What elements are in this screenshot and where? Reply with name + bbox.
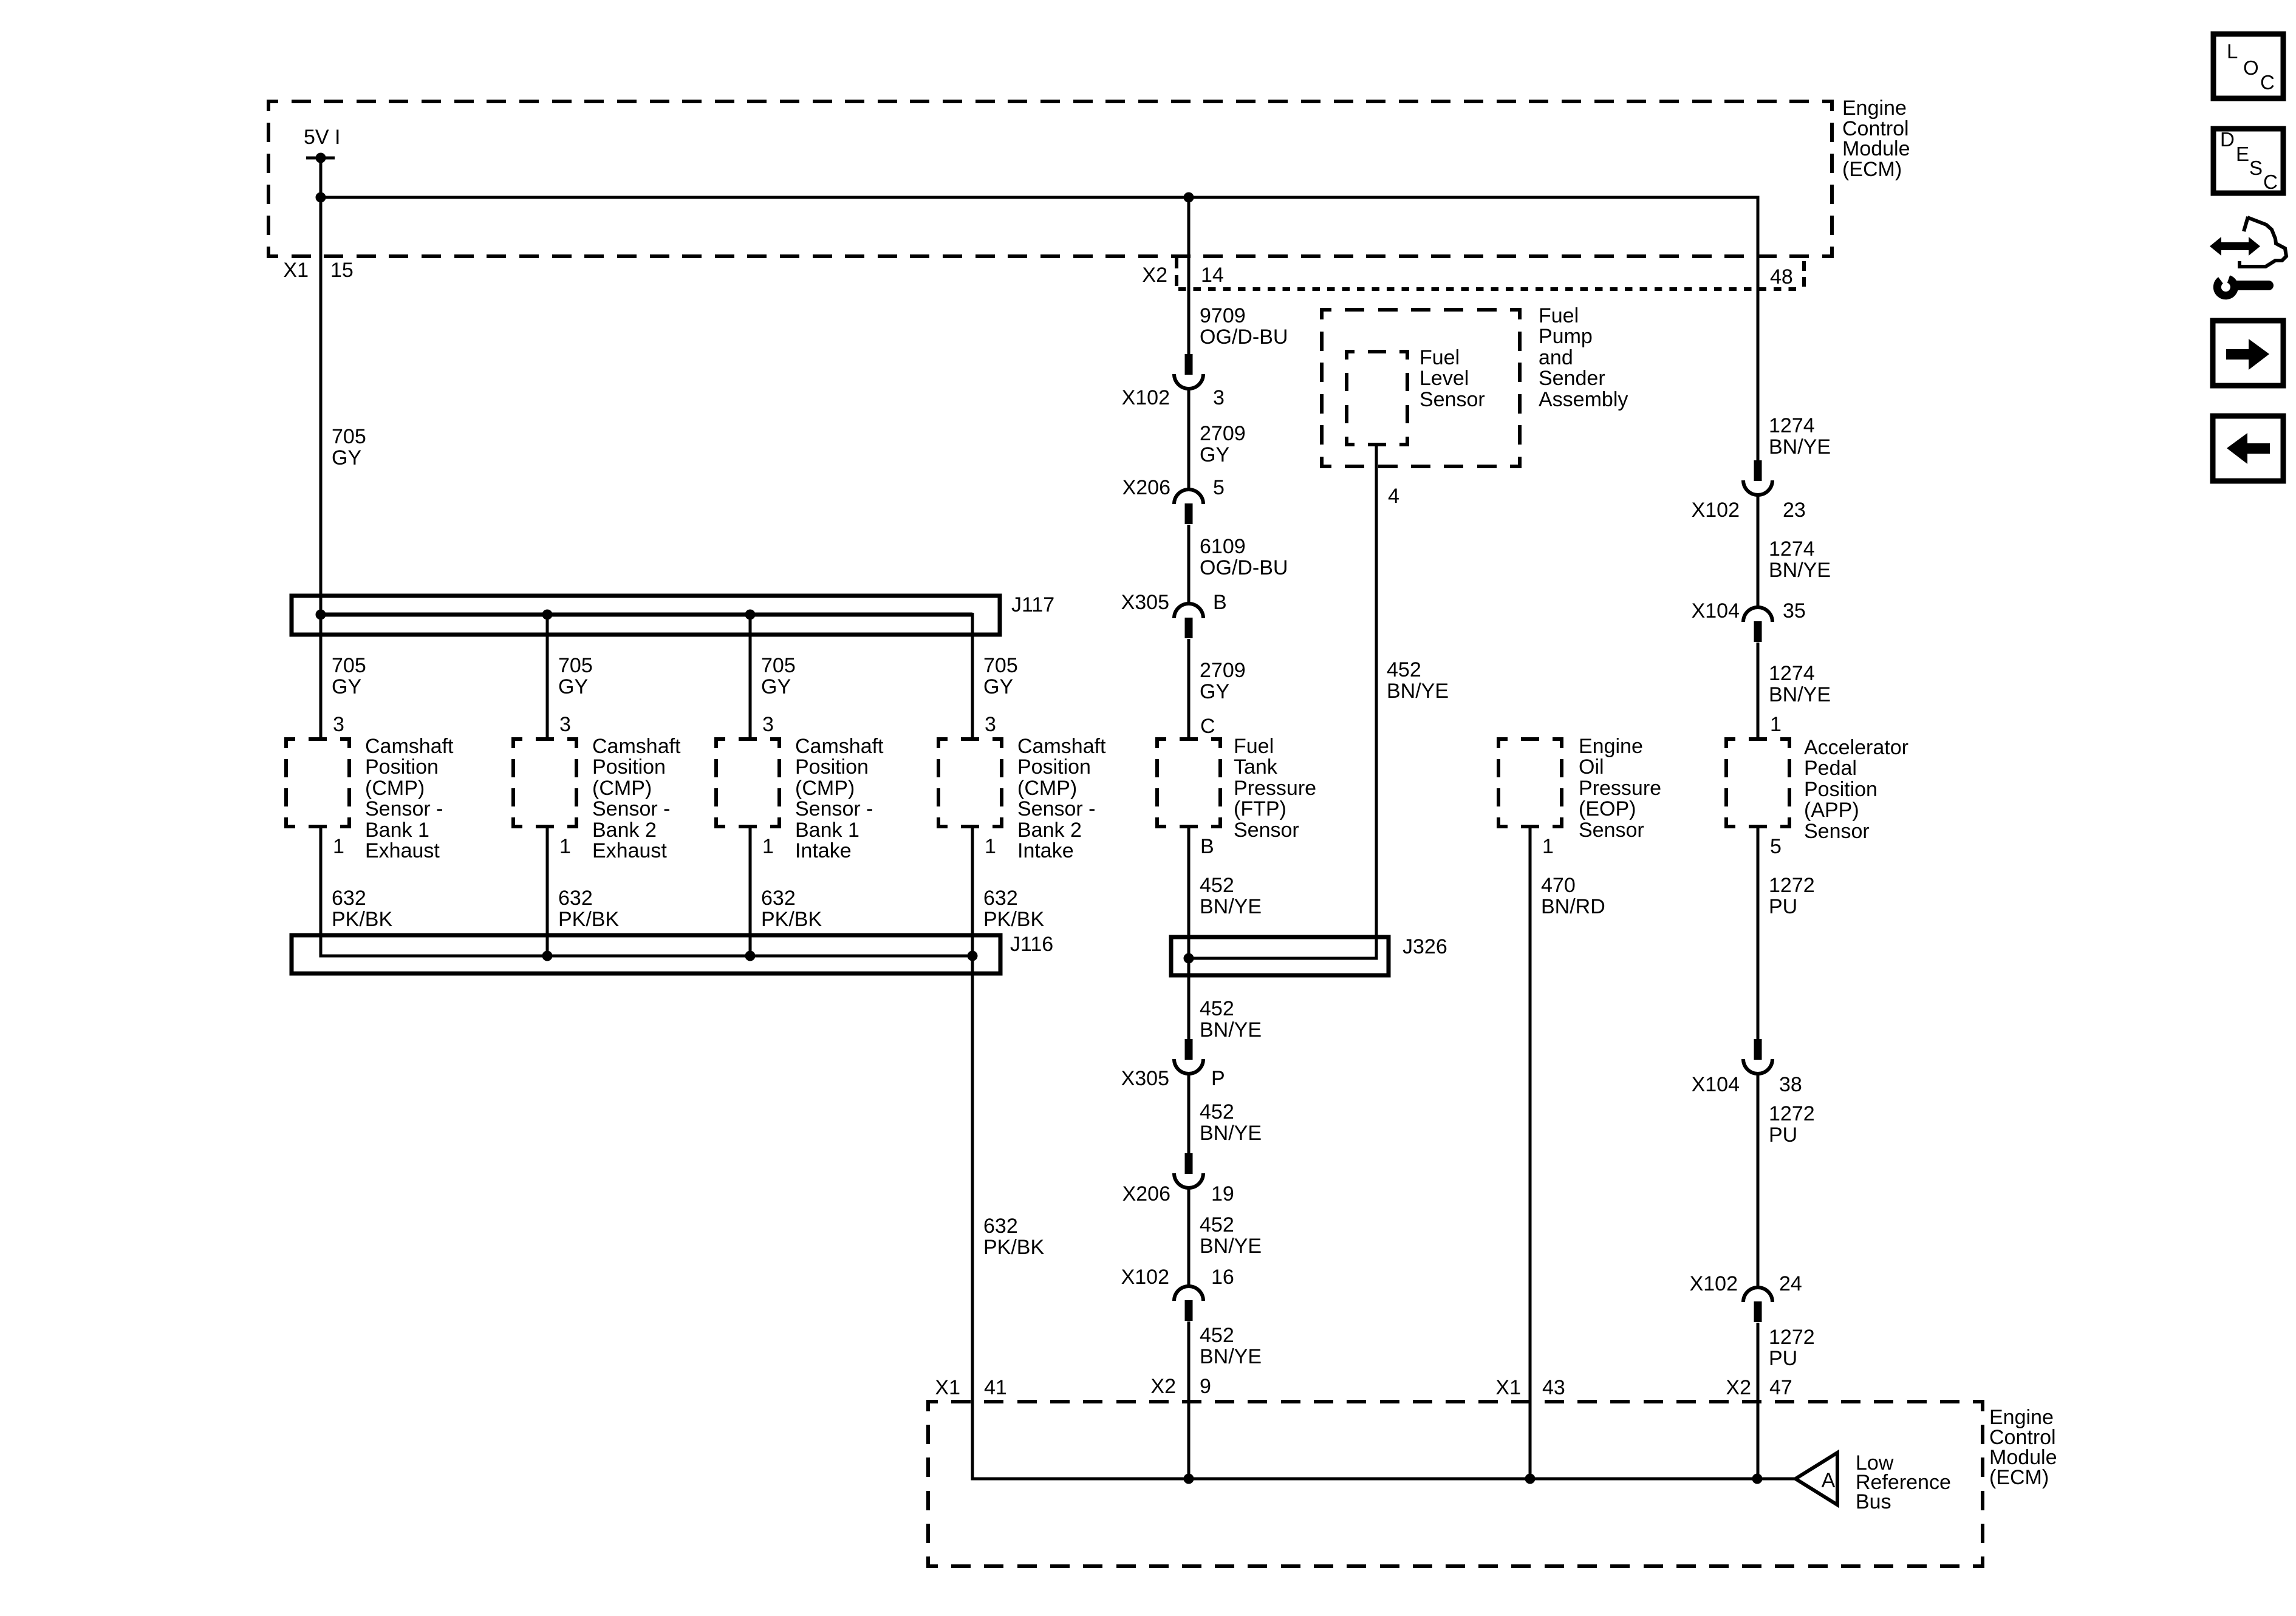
splice pack J117 xyxy=(292,596,1000,635)
svg-text:Camshaft: Camshaft xyxy=(1017,735,1106,758)
svg-text:BN/YE: BN/YE xyxy=(1769,683,1831,706)
svg-text:452: 452 xyxy=(1387,658,1421,681)
svg-text:PU: PU xyxy=(1769,1123,1797,1147)
svg-text:X1: X1 xyxy=(283,259,309,282)
svg-text:(CMP): (CMP) xyxy=(1017,777,1077,800)
svg-text:PK/BK: PK/BK xyxy=(983,908,1044,931)
node low-ref 2 xyxy=(1525,1474,1536,1484)
svg-text:X102: X102 xyxy=(1692,499,1740,522)
svg-text:(FTP): (FTP) xyxy=(1234,797,1286,820)
inline connector X102 pin 23 xyxy=(1743,460,1772,495)
svg-text:Pump: Pump xyxy=(1539,325,1593,348)
fuel tank pressure FTP sensor xyxy=(1157,739,1220,827)
svg-text:GY: GY xyxy=(332,446,361,469)
wire CMP2 ground xyxy=(546,827,549,956)
svg-text:9: 9 xyxy=(1200,1375,1211,1398)
svg-text:Pressure: Pressure xyxy=(1579,777,1661,800)
svg-text:632: 632 xyxy=(558,887,593,910)
svg-text:3: 3 xyxy=(762,713,774,736)
node J116-4 xyxy=(968,951,978,961)
svg-text:Pressure: Pressure xyxy=(1234,777,1316,800)
svg-text:PK/BK: PK/BK xyxy=(332,908,392,931)
svg-text:and: and xyxy=(1539,346,1573,369)
svg-text:1272: 1272 xyxy=(1769,874,1815,897)
connector X2 row of ECM (pins 14-48) xyxy=(1175,257,1178,289)
svg-text:Accelerator: Accelerator xyxy=(1804,736,1908,759)
svg-text:Engine: Engine xyxy=(1842,97,1907,120)
wire FTP to ECM segments xyxy=(1187,1074,1191,1153)
svg-text:Position: Position xyxy=(795,755,869,779)
svg-text:Engine: Engine xyxy=(1579,735,1643,758)
node J117-1 xyxy=(316,610,326,620)
svg-text:35: 35 xyxy=(1783,599,1806,622)
node J116-3 xyxy=(745,951,756,961)
svg-text:24: 24 xyxy=(1779,1272,1802,1295)
svg-text:3: 3 xyxy=(559,713,571,736)
svg-text:C: C xyxy=(2263,171,2278,193)
svg-text:B: B xyxy=(1200,835,1214,858)
ECM top dashed box xyxy=(268,101,1832,256)
svg-text:3: 3 xyxy=(1213,386,1225,409)
svg-text:BN/YE: BN/YE xyxy=(1200,1235,1262,1258)
svg-text:X102: X102 xyxy=(1690,1272,1738,1295)
svg-text:BN/RD: BN/RD xyxy=(1541,895,1605,918)
svg-text:X1: X1 xyxy=(935,1376,960,1399)
svg-text:452: 452 xyxy=(1200,997,1234,1020)
svg-text:Position: Position xyxy=(592,755,666,779)
svg-text:Fuel: Fuel xyxy=(1420,346,1460,369)
inline connector X102 pin 16 xyxy=(1174,1286,1203,1321)
svg-text:Exhaust: Exhaust xyxy=(365,839,440,862)
svg-text:452: 452 xyxy=(1200,1213,1234,1236)
svg-text:J326: J326 xyxy=(1403,935,1447,958)
splice pack J116 xyxy=(292,935,1000,973)
svg-text:X104: X104 xyxy=(1692,599,1740,622)
svg-text:Assembly: Assembly xyxy=(1539,388,1628,411)
svg-text:X305: X305 xyxy=(1121,1067,1169,1090)
svg-text:Sensor -: Sensor - xyxy=(795,797,873,820)
wire CMP2 feed xyxy=(546,615,549,739)
engine oil pressure EOP sensor xyxy=(1498,739,1562,827)
svg-text:Sensor: Sensor xyxy=(1804,820,1870,843)
svg-text:1: 1 xyxy=(559,835,571,858)
node low-ref 3 xyxy=(1752,1474,1763,1484)
svg-text:Fuel: Fuel xyxy=(1234,735,1274,758)
svg-text:B: B xyxy=(1213,591,1227,614)
svg-text:BN/YE: BN/YE xyxy=(1200,895,1262,918)
svg-text:705: 705 xyxy=(761,654,796,677)
svg-text:Camshaft: Camshaft xyxy=(592,735,681,758)
svg-text:1274: 1274 xyxy=(1769,537,1815,561)
svg-text:BN/YE: BN/YE xyxy=(1200,1018,1262,1042)
svg-text:OG/D-BU: OG/D-BU xyxy=(1200,556,1288,579)
svg-text:BN/YE: BN/YE xyxy=(1769,559,1831,582)
svg-text:Camshaft: Camshaft xyxy=(365,735,454,758)
wire CMP3 feed xyxy=(749,615,752,739)
svg-text:705: 705 xyxy=(983,654,1018,677)
ECM bottom dashed box xyxy=(928,1402,1983,1566)
svg-text:BN/YE: BN/YE xyxy=(1200,1122,1262,1145)
svg-text:705: 705 xyxy=(558,654,593,677)
inline connector X104 pin 38 xyxy=(1743,1039,1772,1074)
svg-text:Sensor: Sensor xyxy=(1234,819,1299,842)
node J117-3 xyxy=(745,610,756,620)
svg-text:23: 23 xyxy=(1783,499,1806,522)
svg-text:3: 3 xyxy=(333,713,344,736)
svg-text:X2: X2 xyxy=(1726,1376,1751,1399)
svg-text:Intake: Intake xyxy=(1017,839,1074,862)
svg-text:Position: Position xyxy=(1017,755,1091,779)
svg-text:Bank 1: Bank 1 xyxy=(365,819,429,842)
svg-text:Bank 2: Bank 2 xyxy=(592,819,657,842)
inline connector X305 pin B xyxy=(1174,604,1203,638)
camshaft position sensor CMP 2 (Bank 2 Exhaust) xyxy=(513,739,576,827)
svg-text:J116: J116 xyxy=(1010,933,1053,956)
svg-text:3: 3 xyxy=(985,713,996,736)
svg-text:P: P xyxy=(1211,1067,1225,1090)
svg-text:4: 4 xyxy=(1388,485,1399,508)
svg-text:Sensor: Sensor xyxy=(1579,819,1644,842)
svg-text:L: L xyxy=(2227,40,2238,63)
svg-text:Intake: Intake xyxy=(795,839,852,862)
svg-text:5V I: 5V I xyxy=(304,126,340,149)
svg-text:5: 5 xyxy=(1213,476,1225,499)
icon DESC box xyxy=(2213,129,2283,193)
svg-text:X104: X104 xyxy=(1692,1073,1740,1096)
svg-text:X2: X2 xyxy=(1150,1375,1176,1398)
svg-text:Sensor: Sensor xyxy=(1420,388,1485,411)
svg-text:632: 632 xyxy=(332,887,366,910)
svg-text:(CMP): (CMP) xyxy=(795,777,855,800)
svg-text:PU: PU xyxy=(1769,1347,1797,1370)
svg-text:Module: Module xyxy=(1842,137,1910,160)
svg-text:PU: PU xyxy=(1769,895,1797,918)
wire EOP signal 470 BN/RD xyxy=(1529,827,1532,1479)
node 5V junction xyxy=(316,193,326,203)
svg-text:1: 1 xyxy=(333,835,344,858)
wire FTP signal xyxy=(1187,827,1191,1039)
svg-text:C: C xyxy=(2260,71,2275,94)
svg-text:(ECM): (ECM) xyxy=(1842,158,1902,181)
svg-text:X206: X206 xyxy=(1122,476,1170,499)
svg-text:X102: X102 xyxy=(1122,386,1170,409)
wire APP signal 1272 PU xyxy=(1757,827,1760,1039)
low reference bus terminal A xyxy=(1795,1453,1837,1505)
svg-text:Fuel: Fuel xyxy=(1539,304,1579,327)
svg-text:X1: X1 xyxy=(1495,1376,1521,1399)
svg-text:BN/YE: BN/YE xyxy=(1769,435,1831,459)
wire FTP feed segments xyxy=(1187,197,1191,354)
svg-text:Sensor -: Sensor - xyxy=(365,797,443,820)
wire CMP4 ground to ECM xyxy=(972,827,1795,1479)
svg-text:Bus: Bus xyxy=(1856,1490,1891,1513)
svg-text:452: 452 xyxy=(1200,874,1234,897)
svg-text:Oil: Oil xyxy=(1579,755,1604,779)
svg-text:632: 632 xyxy=(983,1215,1018,1238)
accelerator pedal position APP sensor xyxy=(1726,739,1789,827)
svg-text:D: D xyxy=(2220,128,2235,151)
svg-text:Exhaust: Exhaust xyxy=(592,839,667,862)
svg-text:1: 1 xyxy=(1770,713,1782,736)
svg-text:452: 452 xyxy=(1200,1324,1234,1347)
svg-text:GY: GY xyxy=(983,675,1013,698)
svg-text:15: 15 xyxy=(330,259,354,282)
svg-text:47: 47 xyxy=(1769,1376,1792,1399)
svg-text:(ECM): (ECM) xyxy=(1989,1466,2049,1489)
inline connector X102 pin 24 xyxy=(1743,1287,1772,1322)
inline connector X305 pin P xyxy=(1174,1039,1203,1074)
splice pack J326 xyxy=(1171,937,1389,975)
wire APP to ECM segments xyxy=(1757,1074,1760,1287)
svg-text:Position: Position xyxy=(1804,778,1877,801)
svg-text:48: 48 xyxy=(1770,265,1793,288)
svg-text:1274: 1274 xyxy=(1769,662,1815,685)
svg-text:C: C xyxy=(1200,715,1215,738)
svg-text:X206: X206 xyxy=(1122,1182,1170,1205)
svg-text:GY: GY xyxy=(332,675,361,698)
wire CMP3 ground xyxy=(749,827,752,956)
wire 5V bus horizontal xyxy=(321,197,1758,460)
svg-text:O: O xyxy=(2243,56,2259,79)
node X2-14 branch xyxy=(1184,193,1194,203)
icon LOC box xyxy=(2213,34,2283,98)
svg-text:S: S xyxy=(2249,157,2263,179)
svg-text:(CMP): (CMP) xyxy=(365,777,425,800)
inline connector X102 pin 3 xyxy=(1174,354,1203,389)
camshaft position sensor CMP 4 (Bank 2 Intake) xyxy=(938,739,1002,827)
svg-text:41: 41 xyxy=(984,1376,1007,1399)
svg-text:38: 38 xyxy=(1779,1073,1802,1096)
svg-text:PK/BK: PK/BK xyxy=(761,908,822,931)
svg-text:1272: 1272 xyxy=(1769,1102,1815,1125)
svg-text:1274: 1274 xyxy=(1769,414,1815,437)
icon vehicle with double arrow and wrench xyxy=(2210,237,2260,256)
camshaft position sensor CMP 1 (Bank 1 Exhaust) xyxy=(286,739,349,827)
svg-text:PK/BK: PK/BK xyxy=(558,908,619,931)
svg-text:470: 470 xyxy=(1541,874,1576,897)
wire 5V vertical (705 GY feed) xyxy=(319,158,323,739)
svg-text:Bank 2: Bank 2 xyxy=(1017,819,1082,842)
wire fuel level sender pin 4 xyxy=(1189,445,1376,958)
svg-text:Sensor -: Sensor - xyxy=(592,797,671,820)
svg-text:19: 19 xyxy=(1211,1182,1234,1205)
icon forward arrow box xyxy=(2213,321,2283,386)
svg-text:GY: GY xyxy=(761,675,791,698)
svg-text:GY: GY xyxy=(1200,680,1229,703)
node J116-2 xyxy=(542,951,553,961)
svg-text:Sender: Sender xyxy=(1539,367,1605,390)
inline connector X206 pin 5 xyxy=(1174,489,1203,524)
svg-text:Tank: Tank xyxy=(1234,755,1278,779)
svg-text:PK/BK: PK/BK xyxy=(983,1236,1044,1259)
svg-text:2709: 2709 xyxy=(1200,422,1246,445)
svg-text:GY: GY xyxy=(1200,443,1229,466)
svg-text:Bank 1: Bank 1 xyxy=(795,819,859,842)
svg-text:1: 1 xyxy=(1542,835,1554,858)
svg-text:632: 632 xyxy=(983,887,1018,910)
svg-text:BN/YE: BN/YE xyxy=(1200,1345,1262,1368)
node J117-2 xyxy=(542,610,553,620)
svg-text:43: 43 xyxy=(1542,1376,1565,1399)
svg-text:2709: 2709 xyxy=(1200,659,1246,682)
svg-text:BN/YE: BN/YE xyxy=(1387,680,1449,703)
svg-text:J117: J117 xyxy=(1011,593,1054,616)
fuel level sensor box xyxy=(1347,352,1407,445)
svg-text:Position: Position xyxy=(365,755,439,779)
svg-text:X305: X305 xyxy=(1121,591,1169,614)
J117 bus xyxy=(321,613,972,617)
svg-text:6109: 6109 xyxy=(1200,535,1246,558)
camshaft position sensor CMP 3 (Bank 1 Intake) xyxy=(716,739,779,827)
node low-ref 1 xyxy=(1184,1474,1194,1484)
svg-text:Camshaft: Camshaft xyxy=(795,735,884,758)
svg-text:Sensor -: Sensor - xyxy=(1017,797,1096,820)
svg-text:1: 1 xyxy=(762,835,774,858)
svg-text:632: 632 xyxy=(761,887,796,910)
inline connector X206 pin 19 xyxy=(1174,1153,1203,1188)
svg-text:(APP): (APP) xyxy=(1804,799,1859,822)
svg-text:E: E xyxy=(2236,143,2249,165)
svg-text:OG/D-BU: OG/D-BU xyxy=(1200,326,1288,349)
svg-text:705: 705 xyxy=(332,654,366,677)
svg-text:14: 14 xyxy=(1201,264,1224,287)
svg-text:705: 705 xyxy=(332,425,366,448)
wire APP feed segments xyxy=(1757,495,1760,607)
svg-text:GY: GY xyxy=(558,675,588,698)
svg-text:Level: Level xyxy=(1420,367,1469,390)
svg-text:452: 452 xyxy=(1200,1100,1234,1123)
inline connector X104 pin 35 xyxy=(1743,607,1772,642)
svg-text:X102: X102 xyxy=(1121,1266,1169,1289)
svg-text:(CMP): (CMP) xyxy=(592,777,652,800)
node J326 xyxy=(1184,953,1194,964)
svg-text:9709: 9709 xyxy=(1200,304,1246,327)
svg-text:1: 1 xyxy=(985,835,996,858)
svg-text:1272: 1272 xyxy=(1769,1326,1815,1349)
wire CMP1 ground xyxy=(321,827,972,956)
svg-text:16: 16 xyxy=(1211,1266,1234,1289)
svg-text:X2: X2 xyxy=(1142,264,1167,287)
svg-text:(EOP): (EOP) xyxy=(1579,797,1636,820)
icon back arrow box xyxy=(2213,416,2283,481)
fuel pump and sender assembly box xyxy=(1322,310,1520,466)
svg-text:5: 5 xyxy=(1770,835,1782,858)
svg-text:Pedal: Pedal xyxy=(1804,757,1857,780)
svg-text:A: A xyxy=(1822,1469,1836,1492)
